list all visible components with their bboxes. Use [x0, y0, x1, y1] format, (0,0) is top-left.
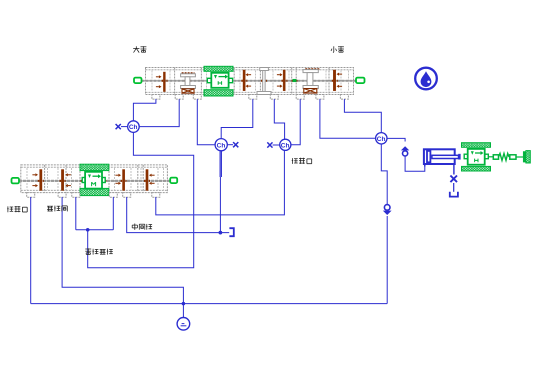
- wire: top tab E to sensor Ch3 top: [274, 99, 284, 139]
- wall anchor W1: [523, 152, 526, 163]
- wire: bottom tab 5 to plugged port B1 (middle chamber): [127, 197, 230, 233]
- bottom valve row outline: [21, 165, 168, 193]
- wire: bottom tab 1 down to bottom bus: [30, 197, 32, 304]
- wire: sensor Ch4 bottom to check valve CV2: [381, 144, 387, 204]
- piston block V6 (top row right): [333, 70, 335, 91]
- check valve CV2: [384, 205, 390, 211]
- wire: sensor Ch4 right to check valve CV1: [387, 138, 405, 141]
- bottom row rod centerline: [19, 180, 170, 182]
- svg-text:Ch: Ch: [281, 142, 290, 149]
- spring-damper K1: [488, 156, 493, 158]
- top row rod centerline: [142, 80, 357, 82]
- tank T1 (circle): [177, 318, 190, 331]
- flow sensor Ch1: [128, 121, 140, 133]
- port P1 (top row left, green): [134, 78, 142, 84]
- top row bottom tabs: [152, 95, 160, 100]
- rod brown marks: [162, 80, 168, 82]
- mass block M2 (bottom row, green): [80, 164, 109, 170]
- svg-text:Ch: Ch: [377, 136, 386, 143]
- junction on bottom bus at tank riser: [182, 302, 185, 305]
- wire: low-pressure link down and right to riser: [88, 132, 194, 267]
- top row inner chamber partitions: [151, 71, 153, 92]
- cylinder head-side port stub: [424, 165, 426, 167]
- label kong-zhi-kou (control port, bottom-left): [7, 206, 9, 212]
- wire: bottom tab 4 down to low-pressure link: [112, 197, 114, 230]
- junction on low-pressure link: [86, 228, 89, 231]
- bottom row bottom tabs: [27, 193, 35, 198]
- bottom row inner chamber partitions: [26, 168, 28, 190]
- green link node between V4 and V5: [293, 79, 296, 82]
- wire: top tab G to sensor Ch4 left: [320, 99, 376, 138]
- piston block V1 (top row left): [163, 72, 165, 92]
- flow sensor Ch3: [280, 139, 291, 150]
- wire: sensor Ch2 bottom down to middle chamber junction: [220, 151, 222, 177]
- signal sink X2 for Ch2: [227, 144, 233, 146]
- port P4 (bottom row right, green): [170, 178, 177, 184]
- piston block V4: [283, 70, 285, 91]
- junction at middle chamber: [219, 231, 222, 234]
- signal sink X3 for Ch3: [273, 144, 280, 146]
- spool block V2 with I-beam: [182, 72, 195, 74]
- wire: top tab H to sensor Ch4 top: [344, 99, 381, 133]
- flow sensor Ch4: [376, 133, 387, 144]
- wire: check valve CV2 down to bottom bus: [386, 216, 388, 304]
- wire: bottom tab 6 to sensor Ch3 bottom: [156, 150, 285, 215]
- svg-text:Ch: Ch: [129, 124, 138, 131]
- plugged port B1 (middle chamber bracket): [229, 228, 233, 236]
- wire: bottom bus horizontal: [31, 303, 388, 305]
- port P2 (top row right, green): [356, 78, 365, 84]
- bottom row inner beams: [21, 166, 168, 168]
- label kong-zhi-kou (control port, middle): [291, 158, 293, 164]
- svg-text:Ch: Ch: [217, 142, 226, 149]
- cylinder rod-side port stub and drain: [453, 165, 455, 175]
- check valve CV1: [401, 146, 409, 150]
- label zui-di-ya-qiang (lowest pressure chamber): [85, 248, 91, 250]
- zero flow source X4 under cylinder: [450, 176, 457, 183]
- piston block V3: [243, 70, 245, 91]
- label da-duan (big end): [133, 47, 139, 49]
- label di-gei-fa (valve): [47, 205, 53, 207]
- piston block V10: [146, 170, 148, 191]
- mass block M3 (load on cylinder rod): [462, 143, 491, 148]
- top row inner top beam: [146, 69, 354, 71]
- center column between V3 and V4: [260, 68, 269, 71]
- wire: low-pressure link horizontal: [76, 229, 114, 231]
- signal sink X1 for Ch1: [121, 126, 128, 128]
- hydraulic cylinder C1: [424, 149, 455, 164]
- bottom rod brown marks: [38, 180, 44, 182]
- port P3 (bottom row left, green): [12, 178, 20, 184]
- wire: bottom tab 2 down and right to tank riser: [62, 197, 183, 304]
- wire: bottom tab 3 down to low-pressure link: [75, 197, 77, 230]
- wire: sensor Ch3 right to top tab F: [291, 99, 300, 145]
- wire: top tab A to sensor Ch1 top: [133, 99, 156, 121]
- wire: top tab C to sensor Ch2 left: [197, 99, 215, 145]
- piston block V8: [61, 170, 63, 191]
- wire: tank riser down to tank T1: [182, 304, 184, 318]
- mass block M1 (top row center, green): [204, 66, 233, 71]
- label xiao-duan (small end): [333, 46, 335, 52]
- flow sensor Ch2: [215, 139, 227, 151]
- wire: sensor Ch1 right to top tab B: [139, 99, 179, 127]
- piston block V9: [123, 170, 125, 191]
- top valve row outline: [146, 68, 354, 95]
- label zhong-jian-qiang (middle chamber): [132, 224, 137, 226]
- oil property icon (droplet): [415, 68, 437, 90]
- spool block V5 with I-beam: [305, 68, 319, 70]
- wire: sensor Ch2 top to top tab D: [221, 99, 253, 139]
- tank T2 under cylinder (bracket): [450, 192, 458, 197]
- piston block V7: [40, 170, 42, 191]
- wire: check valve CV1 to cylinder rod-side port: [405, 156, 425, 171]
